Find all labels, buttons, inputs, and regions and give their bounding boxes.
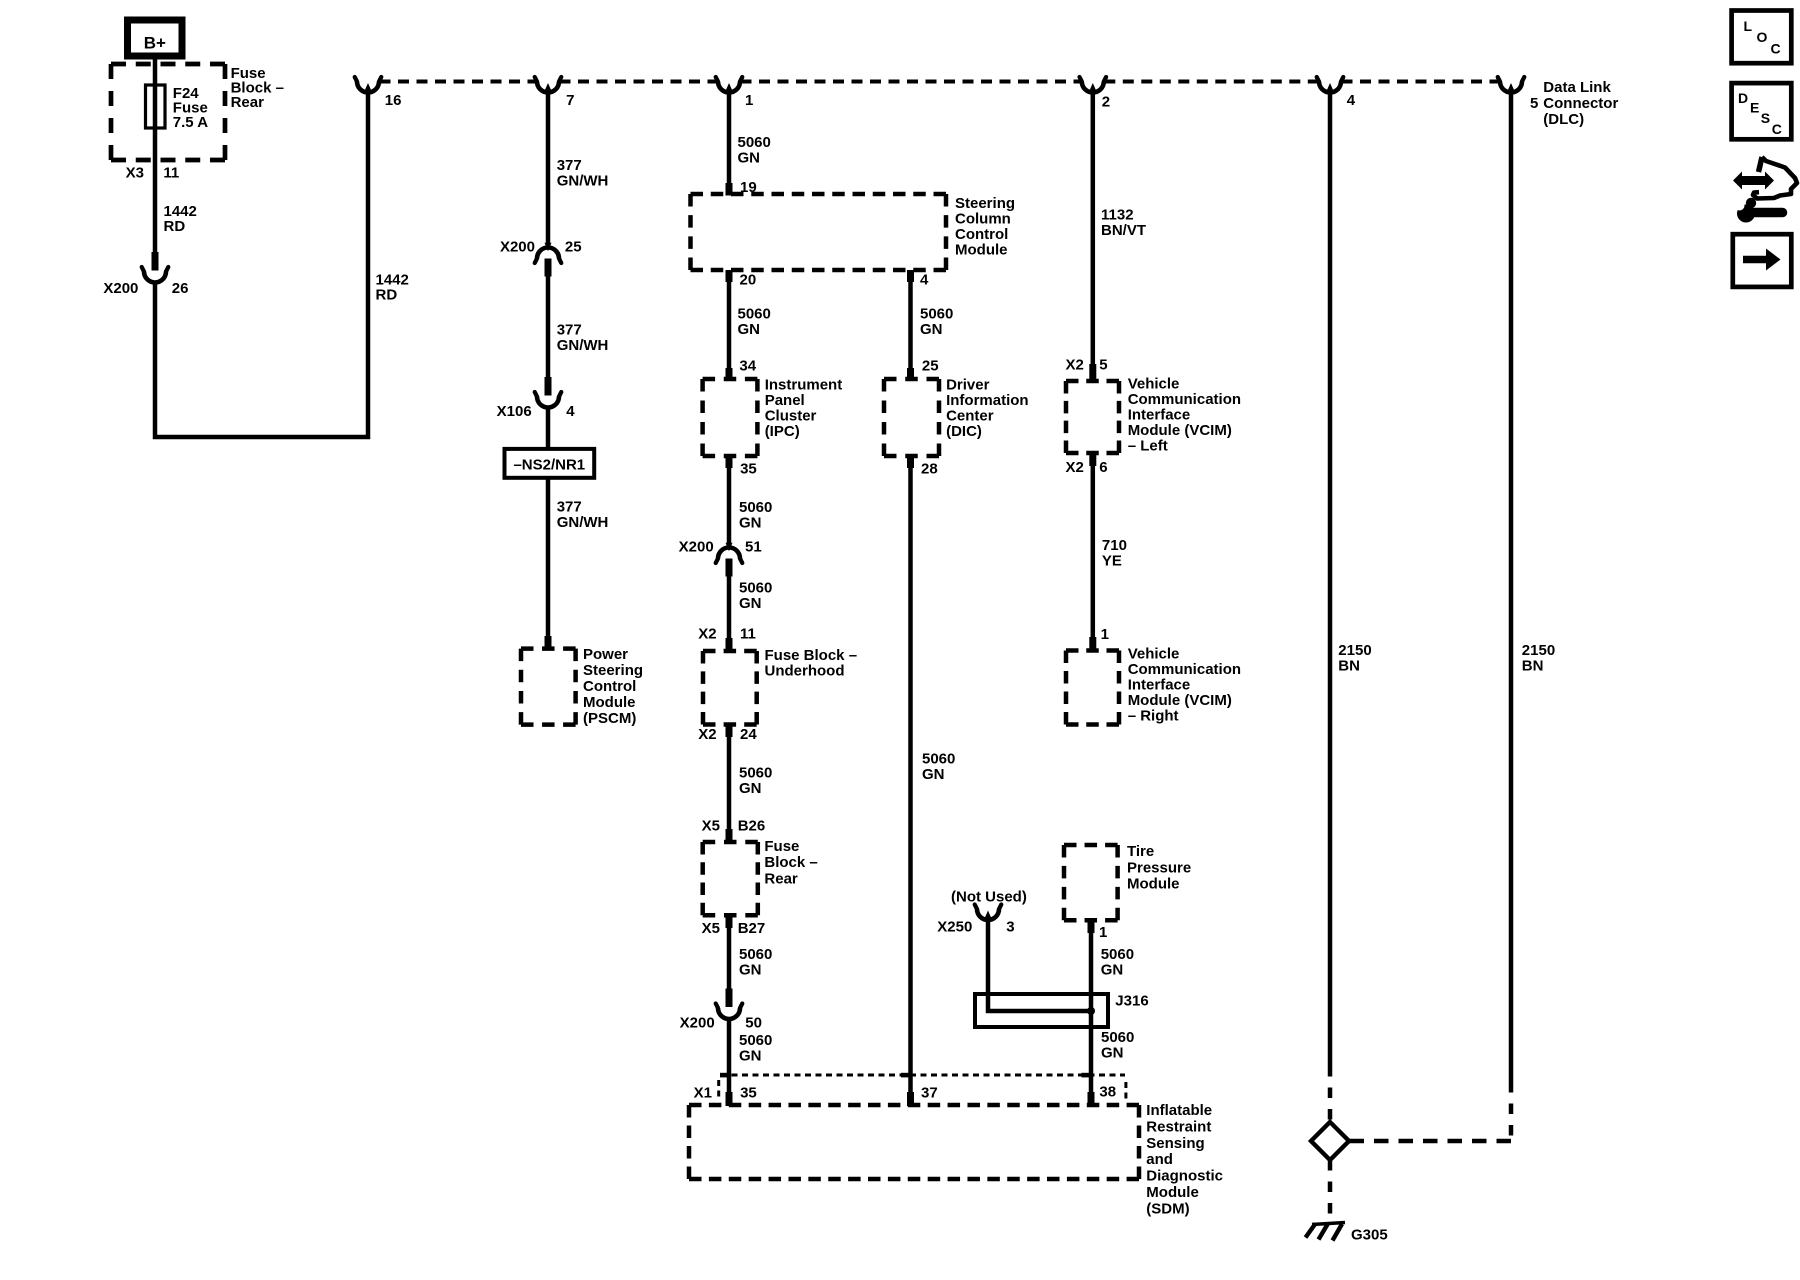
module Inflatable Restraint Sensing and Diagnostic Module (SDM) dashed box	[689, 1103, 1139, 1108]
svg-text:16: 16	[385, 92, 402, 109]
svg-text:Steering: Steering	[955, 195, 1015, 212]
svg-text:S: S	[1761, 110, 1770, 126]
svg-text:Fuse: Fuse	[764, 838, 799, 855]
svg-text:5060: 5060	[739, 580, 772, 597]
wire 5060 GN (X250-3 to splice J316)	[988, 918, 1089, 1011]
svg-text:X200: X200	[679, 539, 714, 556]
svg-text:– Right: – Right	[1128, 708, 1179, 725]
svg-text:X5: X5	[702, 818, 720, 835]
module Instrument Panel Cluster (IPC) dashed box	[703, 377, 758, 382]
fuse F24 7.5 A	[146, 85, 166, 128]
svg-text:GN: GN	[1101, 962, 1124, 979]
pin 4 stub (SCCM bottom)	[907, 270, 914, 282]
svg-text:6: 6	[1099, 459, 1107, 476]
ground symbol G305	[1306, 1223, 1346, 1241]
svg-text:Rear: Rear	[764, 871, 798, 888]
svg-text:5060: 5060	[738, 306, 771, 323]
svg-text:4: 4	[1347, 92, 1356, 109]
svg-text:G305: G305	[1351, 1227, 1388, 1244]
svg-text:24: 24	[740, 726, 757, 743]
svg-text:X2: X2	[1065, 356, 1083, 373]
svg-text:377: 377	[557, 322, 582, 339]
svg-text:Underhood: Underhood	[765, 663, 845, 680]
pin 28 stub	[907, 456, 914, 468]
svg-text:Vehicle: Vehicle	[1128, 646, 1180, 663]
wire 5060 GN (DIC 28 to SDM 37)	[908, 467, 913, 1093]
svg-text:GN/WH: GN/WH	[557, 337, 609, 354]
svg-text:4: 4	[920, 272, 929, 289]
svg-text:RD: RD	[164, 218, 186, 235]
svg-text:35: 35	[740, 461, 757, 478]
svg-text:X3: X3	[126, 164, 144, 181]
svg-text:Module: Module	[583, 694, 636, 711]
svg-text:Communication: Communication	[1128, 661, 1241, 678]
svg-text:GN: GN	[738, 321, 761, 338]
svg-text:GN: GN	[1101, 1045, 1124, 1062]
svg-text:5060: 5060	[739, 1032, 772, 1049]
svg-text:(DIC): (DIC)	[946, 423, 982, 440]
svg-text:5: 5	[1530, 95, 1538, 112]
svg-text:38: 38	[1099, 1084, 1116, 1101]
svg-text:Module: Module	[955, 242, 1008, 259]
icon continuation arrow box	[1733, 234, 1792, 287]
svg-text:GN: GN	[739, 1048, 762, 1065]
svg-text:GN: GN	[739, 780, 762, 797]
svg-text:Rear: Rear	[231, 94, 265, 111]
connector cup X250 pin 3 (not used)	[977, 909, 999, 920]
svg-text:J316: J316	[1115, 993, 1148, 1010]
svg-text:5060: 5060	[739, 765, 772, 782]
svg-text:(IPC): (IPC)	[765, 423, 800, 440]
svg-text:Diagnostic: Diagnostic	[1146, 1168, 1223, 1185]
wire 5060 GN (SCCM 4 to DIC 25)	[908, 281, 913, 373]
svg-text:Center: Center	[946, 408, 994, 425]
icon LOC box	[1732, 11, 1792, 64]
svg-text:X106: X106	[497, 403, 532, 420]
svg-text:Instrument: Instrument	[765, 377, 843, 394]
serial data bus wire (dashed) 2 to 4	[1104, 80, 1318, 84]
svg-text:BN/VT: BN/VT	[1101, 222, 1146, 239]
svg-text:GN/WH: GN/WH	[557, 514, 609, 531]
svg-text:1: 1	[1099, 924, 1107, 941]
svg-text:GN: GN	[739, 962, 762, 979]
svg-text:Pressure: Pressure	[1127, 859, 1191, 876]
svg-text:5060: 5060	[739, 946, 772, 963]
serial data bus wire (dashed) 7 to 1	[560, 80, 718, 84]
svg-text:(Not Used): (Not Used)	[951, 889, 1027, 906]
svg-text:50: 50	[745, 1015, 762, 1032]
svg-text:GN: GN	[920, 321, 943, 338]
svg-text:GN: GN	[738, 150, 761, 167]
wire 377 GN/WH (X106 to NS2/NR1 option box)	[546, 406, 551, 449]
svg-text:Cluster: Cluster	[765, 408, 817, 425]
svg-text:Module (VCIM): Module (VCIM)	[1128, 422, 1232, 439]
wire 710 YE (VCIM-left X2-6 to VCIM-right 1)	[1091, 465, 1096, 638]
splice (diamond)	[1311, 1122, 1349, 1160]
svg-text:C: C	[1772, 121, 1782, 137]
wire 377 GN/WH (NS2/NR1 to PSCM)	[546, 478, 551, 637]
svg-text:377: 377	[557, 499, 582, 516]
svg-text:X250: X250	[937, 919, 972, 936]
svg-text:5060: 5060	[738, 134, 771, 151]
svg-text:X5: X5	[702, 920, 720, 937]
module Power Steering Control Module (PSCM) dashed box	[521, 646, 576, 651]
svg-text:1: 1	[1101, 626, 1109, 643]
svg-text:X2: X2	[1065, 459, 1083, 476]
svg-text:377: 377	[557, 157, 582, 174]
svg-text:(PSCM): (PSCM)	[583, 710, 636, 727]
svg-text:YE: YE	[1102, 552, 1122, 569]
svg-text:E: E	[1750, 100, 1759, 116]
SDM X1 separator tick (fine dashed)	[717, 1080, 720, 1100]
svg-text:–NS2/NR1: –NS2/NR1	[513, 457, 585, 474]
option box -NS2/NR1	[505, 449, 595, 478]
wire 5060 GN (X200-51 to fuse block underhood X2-11)	[727, 575, 732, 639]
svg-text:BN: BN	[1522, 658, 1544, 675]
svg-text:X1: X1	[694, 1085, 712, 1102]
pin 20 stub	[726, 270, 733, 282]
fuse block - rear (dashed outline)	[111, 62, 225, 67]
connector cup pin 4 (DLC)	[1319, 82, 1341, 93]
svg-text:– Left: – Left	[1128, 438, 1168, 455]
svg-text:Control: Control	[955, 226, 1008, 243]
wire 5060 GN (TPM 1 through J316 to SDM 38)	[1089, 932, 1094, 1093]
connector cup pin 16 (fuse block - rear)	[357, 82, 379, 93]
svg-text:X200: X200	[103, 280, 138, 297]
svg-text:X2: X2	[698, 726, 716, 743]
svg-text:1: 1	[745, 92, 753, 109]
svg-text:Information: Information	[946, 392, 1029, 409]
wire DLC 5 to splice (dashed)	[1509, 1082, 1514, 1139]
wire 377 GN/WH (7 to X200-25)	[546, 93, 551, 244]
connector cup pin 1	[718, 82, 740, 93]
connector X200 pin 25 (in-line)	[545, 243, 552, 252]
svg-text:5060: 5060	[1101, 1029, 1134, 1046]
svg-text:Driver: Driver	[946, 377, 990, 394]
svg-text:34: 34	[739, 358, 756, 375]
pin X2 24 stub	[726, 725, 733, 738]
module Steering Column Control Module dashed box	[691, 192, 947, 197]
svg-text:Interface: Interface	[1128, 407, 1191, 424]
connector X200 pin 51 (in-line)	[726, 543, 733, 552]
wire 5060 GN (SCCM 20 to IPC 34)	[727, 281, 732, 373]
SDM right separator tick (fine dashed)	[1124, 1082, 1127, 1099]
svg-text:X2: X2	[698, 626, 716, 643]
module Tire Pressure Module dashed box	[1064, 843, 1118, 848]
svg-text:5060: 5060	[922, 751, 955, 768]
svg-text:25: 25	[922, 358, 939, 375]
connector cup pin 7	[537, 82, 559, 93]
svg-text:51: 51	[745, 539, 762, 556]
svg-text:25: 25	[565, 239, 582, 256]
wire 5060 GN (1 to SCCM pin 19)	[727, 93, 732, 184]
svg-text:B26: B26	[738, 818, 766, 835]
svg-text:X200: X200	[500, 239, 535, 256]
svg-text:Module: Module	[1127, 876, 1180, 893]
svg-text:O: O	[1757, 29, 1768, 45]
module Vehicle Communication Interface Module (VCIM) - Right dashed box	[1066, 648, 1119, 653]
junction dot at J316	[1087, 1007, 1095, 1015]
pin 37 stub into SDM	[907, 1092, 914, 1106]
wire 5060 GN (X200-50 to SDM X1-35)	[727, 1018, 732, 1093]
wire 2150 BN (DLC 5 down)	[1509, 93, 1514, 1082]
svg-text:GN: GN	[739, 515, 762, 532]
svg-text:5: 5	[1099, 356, 1107, 373]
svg-text:1132: 1132	[1101, 207, 1134, 224]
svg-text:28: 28	[921, 461, 938, 478]
svg-text:RD: RD	[376, 287, 398, 304]
svg-text:5060: 5060	[1101, 946, 1134, 963]
serial data bus wire (dashed) 4 to DLC 5	[1342, 80, 1500, 84]
svg-text:L: L	[1744, 18, 1753, 34]
wire 1442 RD from X200-26 up to fuse block rear pin 16	[155, 93, 368, 437]
svg-text:Module (VCIM): Module (VCIM)	[1128, 692, 1232, 709]
pin 35 stub	[726, 456, 733, 468]
svg-text:B+: B+	[144, 34, 166, 53]
svg-text:37: 37	[921, 1085, 938, 1102]
svg-text:Column: Column	[955, 211, 1011, 228]
connector X106 pin 4 (in-line)	[545, 377, 552, 396]
svg-text:C: C	[1771, 41, 1781, 57]
wire 5060 GN (X5-B27 to X200-50)	[727, 927, 732, 989]
svg-text:(DLC): (DLC)	[1543, 111, 1584, 128]
serial data bus wire (dashed) 1 to 2	[741, 80, 1082, 84]
svg-text:Vehicle: Vehicle	[1128, 376, 1180, 393]
svg-text:Data Link: Data Link	[1543, 79, 1611, 96]
svg-text:and: and	[1146, 1151, 1173, 1168]
svg-text:Tire: Tire	[1127, 843, 1154, 860]
connector cup pin 5 (DLC)	[1500, 82, 1522, 93]
svg-text:2150: 2150	[1522, 642, 1555, 659]
svg-text:5060: 5060	[920, 306, 953, 323]
svg-text:4: 4	[566, 403, 575, 420]
power node B+	[128, 20, 183, 56]
wire 5060 GN (X2-24 to X5-B26)	[727, 736, 732, 830]
svg-text:Interface: Interface	[1128, 677, 1191, 694]
serial data bus wire (dashed) 16 to 7	[380, 80, 537, 84]
svg-text:Communication: Communication	[1128, 391, 1241, 408]
svg-text:GN/WH: GN/WH	[557, 173, 609, 190]
svg-text:2: 2	[1102, 94, 1110, 111]
pin X5 B27 stub	[726, 915, 733, 928]
svg-text:7.5 A: 7.5 A	[173, 114, 208, 131]
svg-text:26: 26	[172, 280, 189, 297]
svg-text:11: 11	[163, 164, 179, 181]
svg-text:GN: GN	[739, 595, 762, 612]
svg-text:Fuse Block –: Fuse Block –	[765, 647, 858, 664]
connector X200 pin 50 (in-line)	[726, 989, 733, 1008]
svg-text:710: 710	[1102, 537, 1127, 554]
svg-text:Sensing: Sensing	[1146, 1135, 1204, 1152]
svg-text:Steering: Steering	[583, 662, 643, 679]
svg-text:3: 3	[1006, 919, 1014, 936]
module Driver Information Center (DIC) dashed box	[884, 377, 939, 382]
svg-text:Block –: Block –	[764, 854, 817, 871]
svg-text:5060: 5060	[739, 499, 772, 516]
svg-text:7: 7	[566, 92, 574, 109]
svg-text:D: D	[1738, 90, 1748, 106]
svg-text:Power: Power	[583, 646, 628, 663]
svg-text:Restraint: Restraint	[1146, 1118, 1211, 1135]
svg-text:B27: B27	[738, 920, 766, 937]
wire 2150 BN (DLC 4 down)	[1328, 93, 1333, 1066]
pin 35 stub into SDM	[726, 1092, 733, 1106]
pin X2 6 stub	[1089, 453, 1096, 466]
wire 1132 BN/VT (2 to VCIM-left X2-5)	[1091, 93, 1096, 365]
wire 377 GN/WH (X200-25 to X106-4)	[546, 275, 551, 377]
SDM connector face row (fine dashed)	[721, 1074, 1125, 1077]
wire 5060 GN (IPC 35 to X200-51)	[727, 467, 732, 544]
svg-text:Module: Module	[1146, 1184, 1199, 1201]
svg-text:11: 11	[740, 626, 756, 643]
svg-text:Panel: Panel	[765, 392, 805, 409]
svg-text:Inflatable: Inflatable	[1146, 1102, 1212, 1119]
module Fuse Block - Rear dashed box	[703, 840, 758, 845]
icon DESC box	[1732, 83, 1792, 139]
module Fuse Block - Underhood dashed box	[703, 649, 757, 654]
pin 1 stub (tire pressure module)	[1088, 920, 1095, 933]
svg-text:(SDM): (SDM)	[1146, 1200, 1189, 1217]
icon vehicle communication symbol (double arrow, vehicle outline, wrench)	[1733, 157, 1797, 223]
svg-text:20: 20	[740, 272, 757, 289]
svg-text:BN: BN	[1338, 658, 1360, 675]
pin 38 stub into SDM	[1088, 1092, 1095, 1106]
splice J316 box	[975, 994, 1108, 1027]
svg-text:X200: X200	[680, 1015, 715, 1032]
connector cup pin 2	[1082, 82, 1104, 93]
svg-text:35: 35	[740, 1085, 757, 1102]
wire splice to ground G305 (dashed)	[1328, 1160, 1333, 1222]
svg-text:GN: GN	[922, 766, 945, 783]
svg-text:Control: Control	[583, 678, 636, 695]
svg-text:Connector: Connector	[1543, 95, 1618, 112]
wire to ground splice (dashed)	[1328, 1066, 1333, 1123]
module Vehicle Communication Interface Module (VCIM) - Left dashed box	[1066, 379, 1119, 384]
wire 1442 RD from B+ through fuse F24 to X200-26	[153, 56, 158, 252]
connector X200 pin 26 (in-line)	[152, 252, 159, 271]
svg-text:2150: 2150	[1338, 642, 1371, 659]
pin stub into PSCM	[545, 636, 552, 649]
